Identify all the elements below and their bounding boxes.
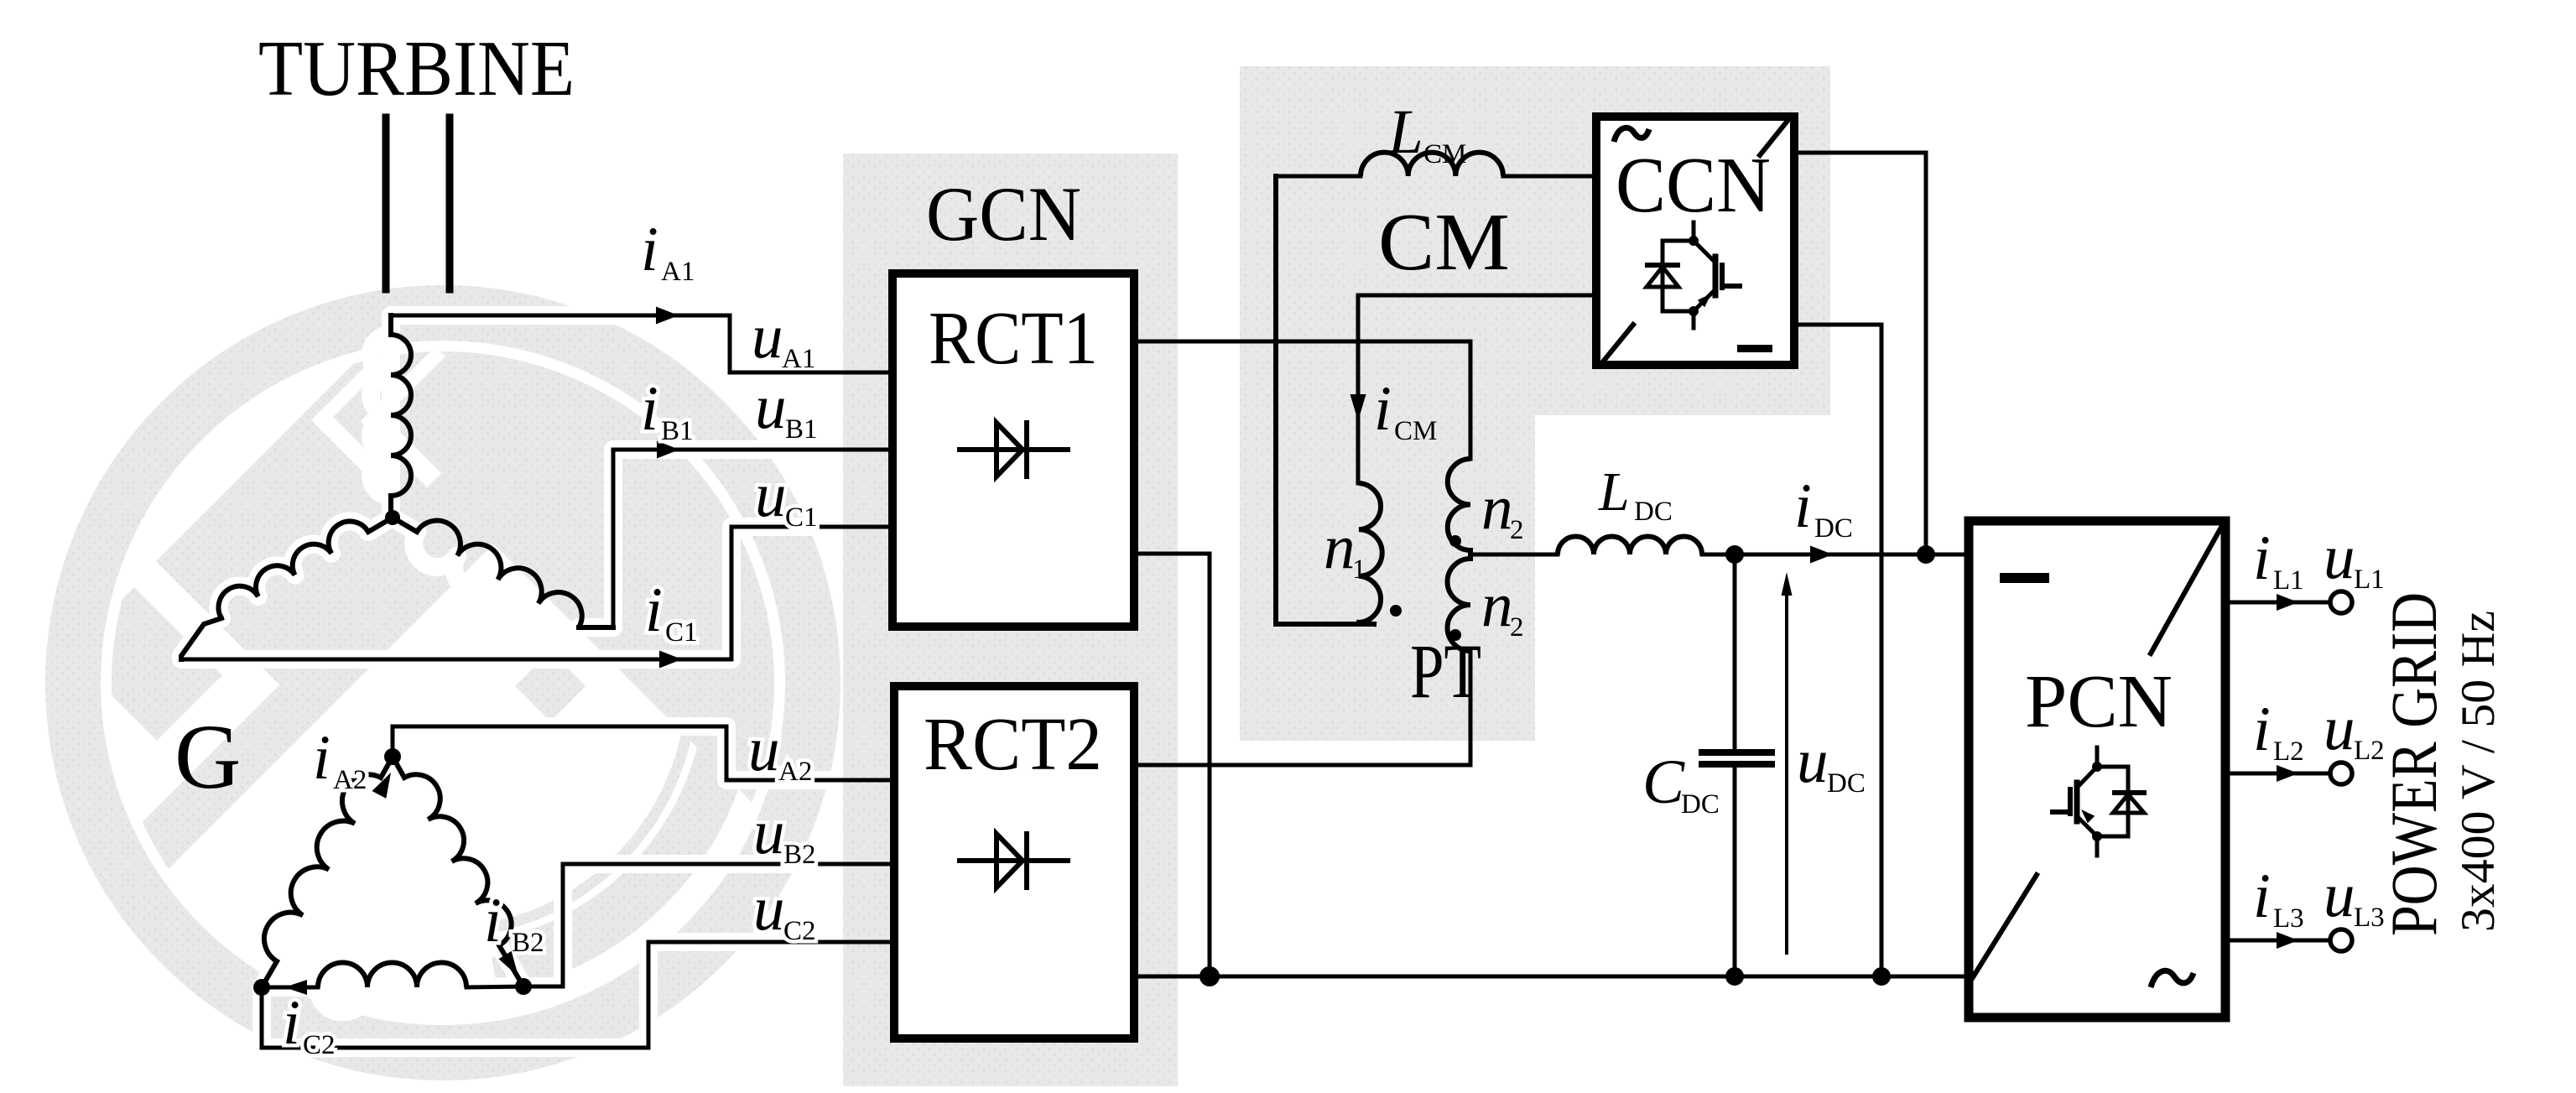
wire RCT2 minus / DC negative rail (1134, 975, 1965, 979)
svg-text:3x400 V / 50 Hz: 3x400 V / 50 Hz (2452, 611, 2505, 932)
n2 lower polarity dot (1449, 629, 1461, 641)
svg-text:u: u (755, 461, 787, 530)
generator watermark logo (gray emblem) (69, 108, 1170, 1053)
delta node C2 (253, 979, 270, 996)
junction CCN top output on DC+ (1917, 545, 1935, 564)
inductor L_CM (1276, 174, 1361, 179)
svg-text:u: u (752, 302, 783, 372)
wire u_A1 (730, 315, 892, 372)
wire u_C2 / i_C2 loop (262, 942, 892, 1048)
capacitor C_DC (1733, 554, 1737, 750)
label n_2 lower (1481, 570, 1524, 643)
generator delta winding phase C2 (bottom side) (262, 986, 318, 990)
generator star winding phase C1 (368, 518, 393, 532)
svg-text:i: i (484, 886, 502, 955)
PCN DC minus mark (2000, 573, 2049, 583)
svg-text:u: u (753, 874, 785, 944)
svg-text:G: G (174, 705, 241, 808)
CCN corner slash top-right (1760, 117, 1791, 155)
white halo buffer around generator artwork (181, 315, 842, 1048)
generator delta winding phase B2 (right side) (393, 757, 404, 778)
wire CCN output bottom to DC- rail (1794, 325, 1881, 976)
PCN AC tilde mark (2151, 971, 2194, 987)
svg-text:C: C (1642, 747, 1685, 817)
diode symbol in RCT2 (960, 834, 1068, 887)
label i_B1 (641, 374, 694, 446)
label L_DC (1598, 461, 1673, 527)
label u_A1 (752, 302, 815, 374)
svg-text:PT: PT (1410, 628, 1481, 714)
wire CCN output top to DC+ rail (1794, 153, 1926, 554)
delta node A2 (384, 748, 401, 765)
svg-text:i: i (283, 988, 300, 1058)
terminal circle u_L3 (2330, 929, 2352, 951)
turbine shaft coupling (382, 117, 390, 289)
svg-text:B1: B1 (785, 414, 818, 445)
generator delta winding phase A2 (left side) (381, 757, 393, 778)
wire i_C1 (bottom rail) (181, 658, 731, 662)
arrow i_C2 (284, 980, 307, 995)
label u_C1 (755, 461, 818, 533)
label i_C2 (283, 988, 336, 1060)
wire u_C1 (731, 527, 892, 659)
svg-text:C2: C2 (303, 1030, 336, 1060)
svg-text:GCN: GCN (926, 171, 1081, 257)
label i_L1 (2253, 523, 2304, 596)
svg-text:L3: L3 (2273, 903, 2304, 934)
transformer PT secondary n2 (lower) (1448, 559, 1471, 651)
label u_C2 (753, 874, 816, 946)
region GCN (gray background column) (843, 154, 1178, 1086)
svg-text:DC: DC (1681, 789, 1720, 820)
svg-text:DC: DC (1634, 497, 1673, 527)
svg-text:C2: C2 (783, 916, 816, 946)
diode symbol in RCT1 (960, 423, 1068, 476)
junction C_DC top (1725, 545, 1744, 564)
svg-text:C1: C1 (785, 502, 818, 533)
junction RCT1-/RCT2- (1200, 966, 1220, 986)
u_DC measurement arrow (1785, 587, 1788, 953)
junction CCN bottom output on DC- (1872, 967, 1891, 986)
svg-text:i: i (645, 575, 663, 645)
label u_L1 (2324, 523, 2385, 595)
label n_2 upper (1481, 473, 1524, 545)
svg-text:u: u (2324, 694, 2355, 763)
delta node B2 (515, 978, 532, 995)
svg-text:n: n (1481, 473, 1513, 543)
wire n1 top to CCN (1358, 295, 1592, 483)
svg-text:L: L (1598, 461, 1630, 523)
svg-text:RCT2: RCT2 (924, 703, 1102, 786)
wire RCT1 plus output to PT upper n2 (1134, 341, 1470, 459)
generator star winding phase A1 (388, 315, 393, 335)
region CM (gray background) (1240, 66, 1830, 415)
label n_1 (1324, 513, 1366, 585)
svg-text:L: L (1387, 97, 1423, 167)
svg-text:CM: CM (1394, 416, 1437, 446)
CCN corner slash bottom-left (1600, 325, 1633, 366)
terminal circle u_L1 (2330, 591, 2352, 613)
label u_B2 (753, 798, 816, 870)
label i_L2 (2253, 695, 2304, 767)
label L_CM (1387, 97, 1466, 169)
svg-text:u: u (2324, 523, 2355, 592)
svg-text:B2: B2 (783, 840, 816, 870)
label i_DC (1794, 471, 1853, 544)
svg-text:2: 2 (1510, 515, 1524, 545)
generator star winding phase B1 (393, 518, 417, 532)
wire CM loop left (1276, 176, 1374, 624)
svg-text:i: i (641, 374, 658, 444)
svg-text:DC: DC (1827, 768, 1866, 799)
n1 polarity dot (1390, 605, 1402, 617)
PCN corner slash bottom-left (1973, 875, 2037, 977)
wire grid phase L1 (2225, 601, 2330, 605)
svg-text:PCN: PCN (2025, 660, 2173, 743)
wire RCT2 plus output to PT lower n2 (1134, 651, 1470, 765)
svg-text:POWER GRID: POWER GRID (2377, 592, 2450, 936)
rectifier RCT2 box (894, 686, 1134, 1038)
svg-text:L1: L1 (2354, 565, 2385, 595)
svg-text:u: u (753, 798, 785, 867)
svg-text:i: i (641, 215, 658, 284)
CCN AC tilde mark (1614, 128, 1649, 142)
svg-text:CM: CM (1423, 139, 1466, 169)
label u_L3 (2324, 861, 2385, 933)
transformer PT primary n1 (1359, 483, 1382, 622)
label i_B2 (484, 886, 544, 958)
svg-text:i: i (2253, 523, 2271, 593)
svg-text:i: i (1794, 471, 1812, 541)
wire i_A1 (391, 314, 730, 318)
wire RCT1 minus output (1134, 554, 1210, 976)
wire i_B1 / u_B1 (579, 625, 613, 630)
svg-text:B2: B2 (512, 928, 544, 958)
n2 upper polarity dot (1449, 535, 1461, 547)
converter PCN box (1969, 521, 2225, 1018)
svg-text:u: u (1797, 726, 1829, 796)
label i_A2 (313, 723, 367, 795)
terminal circle u_L2 (2330, 762, 2352, 784)
wire grid phase L3 (2225, 939, 2330, 943)
svg-text:CM: CM (1378, 197, 1510, 288)
svg-text:i: i (2253, 695, 2271, 764)
svg-text:u: u (755, 372, 787, 442)
converter CCN box (1596, 117, 1794, 365)
CCN DC minus mark (1737, 345, 1772, 352)
svg-text:CCN: CCN (1616, 142, 1771, 229)
wire PT centre tap to L_DC (1470, 553, 1558, 557)
svg-text:A1: A1 (661, 257, 695, 287)
wire DC+ rail (1702, 553, 1965, 557)
svg-text:n: n (1324, 513, 1356, 582)
svg-text:TURBINE: TURBINE (258, 25, 575, 112)
svg-text:u: u (748, 715, 780, 784)
svg-text:2: 2 (1510, 612, 1524, 643)
junction C_DC bottom (1725, 967, 1744, 986)
rectifier RCT1 box (892, 273, 1134, 627)
svg-text:i: i (2253, 861, 2271, 931)
svg-text:1: 1 (1352, 554, 1366, 585)
IGBT symbol in CCN (1647, 222, 1740, 328)
svg-text:C1: C1 (665, 617, 698, 648)
label i_CM (1374, 374, 1437, 446)
PCN corner slash top-right (2151, 524, 2223, 653)
svg-text:B1: B1 (661, 416, 694, 446)
label i_L3 (2253, 861, 2304, 934)
wire grid phase L2 (2225, 772, 2330, 776)
svg-text:DC: DC (1814, 513, 1853, 544)
svg-text:u: u (2324, 861, 2355, 930)
svg-text:i: i (1374, 374, 1392, 444)
label C_DC (1642, 747, 1720, 820)
arrow i_B2 (499, 951, 519, 976)
star neutral node (385, 510, 400, 525)
IGBT symbol in PCN (2053, 747, 2144, 856)
svg-text:A1: A1 (782, 344, 815, 374)
svg-text:L1: L1 (2273, 565, 2304, 596)
svg-text:i: i (313, 723, 330, 793)
wire u_A2 (393, 726, 892, 780)
label u_B1 (755, 372, 818, 445)
svg-text:A2: A2 (333, 765, 367, 795)
label u_DC (1797, 726, 1866, 799)
inductor L_DC (1558, 537, 1702, 555)
wire u_B2 (523, 864, 892, 986)
label i_C1 (645, 575, 698, 648)
transformer PT secondary n2 (upper) (1448, 459, 1470, 550)
svg-text:L2: L2 (2273, 736, 2304, 767)
arrow i_A2 (372, 773, 392, 799)
label i_A1 (641, 215, 695, 287)
svg-text:n: n (1481, 570, 1513, 640)
svg-text:A2: A2 (778, 757, 812, 787)
svg-text:RCT1: RCT1 (929, 297, 1098, 380)
label u_L2 (2324, 694, 2385, 766)
label u_A2 (748, 715, 812, 787)
